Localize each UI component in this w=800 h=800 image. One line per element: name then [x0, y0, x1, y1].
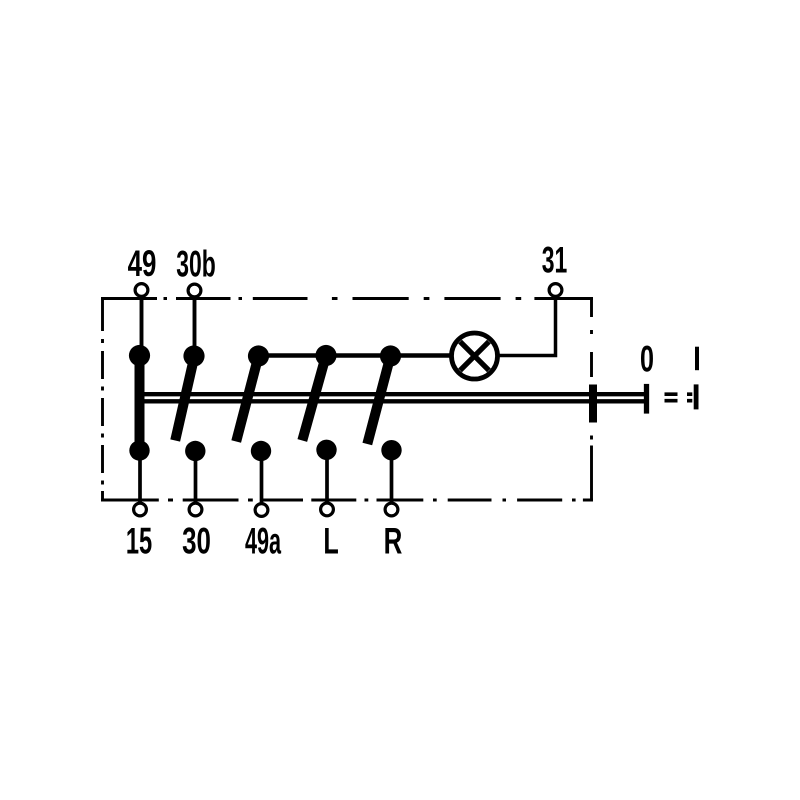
svg-text:L: L — [323, 520, 338, 562]
svg-text:49a: 49a — [245, 522, 282, 562]
svg-text:15: 15 — [126, 520, 152, 562]
svg-text:30: 30 — [182, 520, 211, 562]
svg-text:31: 31 — [542, 239, 568, 281]
svg-text:0: 0 — [640, 338, 654, 380]
svg-text:30b: 30b — [176, 243, 216, 285]
svg-text:R: R — [384, 520, 403, 562]
svg-text:49: 49 — [128, 242, 157, 284]
